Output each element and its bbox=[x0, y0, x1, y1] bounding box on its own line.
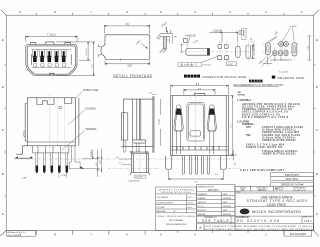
svg-text:DATE: DATE bbox=[223, 193, 228, 196]
zone numbers top bbox=[19, 10, 303, 14]
svg-text:B: B bbox=[2, 172, 4, 176]
dim 3.1 right pins bbox=[228, 150, 237, 161]
contact slots below bbox=[32, 50, 72, 68]
svg-text:16/08/30: 16/08/30 bbox=[223, 198, 232, 200]
small oval a bbox=[273, 50, 277, 56]
svg-text:WITHIN DIMENSIONS: WITHIN DIMENSIONS bbox=[166, 224, 187, 226]
svg-text:TML:: TML: bbox=[246, 135, 252, 137]
rear view outline bbox=[123, 99, 153, 146]
dim 1.3±0.05 mount bbox=[210, 32, 238, 43]
svg-text:CONTACT AREA:GOLD FLASH: CONTACT AREA:GOLD FLASH bbox=[262, 126, 303, 129]
bottom center notch bbox=[50, 73, 54, 75]
vertical dim left of reverse bbox=[253, 41, 255, 56]
circle pad 1 bbox=[279, 42, 284, 47]
shield latch window bbox=[37, 98, 54, 105]
zone ticks left bbox=[4, 65, 6, 196]
svg-text:(0.05μm MIN) OVERALL: (0.05μm MIN) OVERALL bbox=[262, 136, 297, 139]
svg-text:1.4±0.05: 1.4±0.05 bbox=[279, 71, 288, 73]
svg-text:SHIELD CASE: MATTE TIN: SHIELD CASE: MATTE TIN bbox=[246, 146, 282, 149]
svg-text:PROJECTION: PROJECTION bbox=[293, 190, 306, 192]
center post bbox=[133, 99, 146, 143]
svg-text:UNDER PLATING:NICKEL: UNDER PLATING:NICKEL bbox=[262, 152, 297, 155]
svg-text:NOTES: NOTES bbox=[238, 95, 246, 97]
svg-text:ANGULAR: ANGULAR bbox=[157, 210, 167, 213]
svg-text:CONNECTOR MOUNT SIDE: CONNECTOR MOUNT SIDE bbox=[202, 75, 247, 79]
doc row bbox=[197, 216, 314, 224]
svg-text:TIN(1μm MIN)×3 OVERALL: TIN(1μm MIN)×3 OVERALL bbox=[262, 150, 299, 153]
long diagonal leaders bbox=[262, 37, 278, 67]
front lip step bbox=[25, 104, 27, 142]
svg-text:-LEAD FREE-: -LEAD FREE- bbox=[266, 203, 287, 207]
svg-text:1.4±0.05: 1.4±0.05 bbox=[284, 59, 293, 61]
tolerance table bbox=[156, 187, 197, 231]
svg-text:+ø0.3 M: +ø0.3 M bbox=[135, 177, 143, 179]
label reverse side bbox=[272, 76, 275, 79]
label connector mount side bbox=[184, 75, 200, 78]
contact 2 bbox=[41, 51, 43, 56]
vertical dim right near border bbox=[308, 36, 312, 60]
svg-text:SHELL:COPPER ALLOY(t=0.25): SHELL:COPPER ALLOY(t=0.25) bbox=[242, 111, 288, 114]
svg-text:MOLEX INCORPORATED: MOLEX INCORPORATED bbox=[252, 210, 301, 214]
svg-text:1.0±0.1: 1.0±0.1 bbox=[91, 149, 93, 157]
scale row bbox=[235, 186, 251, 191]
svg-text:NB: NB bbox=[238, 92, 242, 94]
title label row bbox=[235, 192, 314, 194]
svg-text:TERMINAL:COPPER ALLOY(t=0.12): TERMINAL:COPPER ALLOY(t=0.12) bbox=[242, 108, 292, 111]
svg-text:500075-R5T: 500075-R5T bbox=[285, 173, 300, 177]
svg-text:Rev. E 2004/1/5: Rev. E 2004/1/5 bbox=[8, 235, 21, 237]
svg-text:±3°: ±3° bbox=[173, 211, 176, 213]
contacts row (5 black terminals) bbox=[33, 51, 65, 62]
side view body bbox=[27, 98, 75, 146]
centerlines mount pattern bbox=[183, 41, 253, 63]
contact 5 bbox=[63, 51, 65, 56]
top tab left bbox=[30, 43, 35, 45]
svg-text:TRAY PKG.: TRAY PKG. bbox=[285, 177, 299, 181]
revision box bottom-left bbox=[7, 231, 36, 237]
svg-text:0.45±0.05: 0.45±0.05 bbox=[185, 34, 196, 37]
svg-text:A: A bbox=[2, 212, 4, 216]
housing posts under body bbox=[33, 146, 69, 153]
svg-text:E: E bbox=[2, 38, 4, 42]
dim 7.0 bottom of back view bbox=[169, 171, 224, 181]
svg-text:BOSS:SUS CORE(t=0.25): BOSS:SUS CORE(t=0.25) bbox=[242, 113, 280, 116]
hidden cavity lines bbox=[58, 99, 65, 146]
shield slot pad left bbox=[186, 48, 210, 55]
svg-text:SOLDER TAIL:GOLD FLASH: SOLDER TAIL:GOLD FLASH bbox=[262, 134, 300, 137]
side view legs bbox=[36, 153, 68, 167]
svg-text:2-ø0.9: 2-ø0.9 bbox=[290, 26, 297, 28]
svg-text:ORDER NO./V-P-##: ORDER NO./V-P-## bbox=[281, 184, 304, 187]
dimple bbox=[59, 106, 62, 109]
svg-text:HOUSING:PBT RESIN UL94V-0 (BLA: HOUSING:PBT RESIN UL94V-0 (BLACK) bbox=[242, 103, 300, 106]
svg-text:(GLASS FILLED, YANEX RESIN B4#: (GLASS FILLED, YANEX RESIN B4#) bbox=[242, 106, 294, 109]
corner cut bottom-left bbox=[0, 231, 6, 237]
back view centerline bbox=[195, 91, 197, 159]
svg-text:A: A bbox=[316, 212, 318, 216]
svg-text:CNT:: CNT: bbox=[246, 127, 251, 129]
corner detail hatch bbox=[163, 37, 166, 49]
svg-text:3rd B-3 DOBEKPYY ALL TCP4.8: 3rd B-3 DOBEKPYY ALL TCP4.8 bbox=[242, 116, 289, 119]
solder fillets front foot bbox=[15, 156, 33, 158]
contact 1 bbox=[34, 51, 36, 56]
svg-text:HOUSING: HOUSING bbox=[85, 108, 96, 110]
svg-text:1.3±0.05: 1.3±0.05 bbox=[213, 29, 223, 32]
title block texts bbox=[281, 173, 304, 187]
dates column bbox=[197, 185, 235, 223]
svg-text:UNLESS SPECIFIED: UNLESS SPECIFIED bbox=[161, 192, 191, 194]
svg-text:B: B bbox=[316, 172, 318, 176]
pcb plane dash-dot lower bbox=[108, 168, 240, 170]
back view pins bbox=[182, 156, 209, 175]
svg-text:(7.5): (7.5) bbox=[308, 46, 310, 51]
svg-text:16/08/30: 16/08/30 bbox=[223, 214, 232, 216]
third angle projection symbol bbox=[275, 187, 283, 190]
svg-text:TERMINAL: TERMINAL bbox=[85, 128, 97, 131]
leader to pads bbox=[202, 56, 220, 63]
zone letters right bbox=[316, 38, 319, 216]
top tab center bbox=[46, 42, 54, 45]
svg-text:1. MATERIAL: 1. MATERIAL bbox=[237, 99, 252, 102]
datum flag D bbox=[239, 30, 244, 34]
svg-text:±0.25: ±0.25 bbox=[187, 203, 193, 205]
svg-text:0.7±0.05: 0.7±0.05 bbox=[202, 65, 211, 67]
top center tab bbox=[194, 93, 205, 95]
svg-text:PHASE I: PHASE I bbox=[198, 197, 207, 200]
svg-text:DATE: DATE bbox=[223, 209, 228, 212]
svg-text:5.87: 5.87 bbox=[128, 65, 133, 68]
back view body bbox=[171, 96, 229, 156]
zone ticks top bbox=[36, 13, 284, 15]
dim 5.87 bottom of frontage bbox=[98, 44, 150, 65]
oblong pad right 2 bbox=[246, 45, 251, 59]
svg-text:10/1: 10/1 bbox=[241, 190, 246, 192]
svg-text:+ ø0.10 M C A8: + ø0.10 M C A8 bbox=[179, 64, 194, 67]
dim 4.5 bbox=[184, 89, 215, 95]
small oval b bbox=[279, 50, 283, 56]
datum box C bbox=[184, 38, 188, 42]
zone letters left bbox=[2, 38, 5, 216]
section hatch bbox=[131, 154, 148, 170]
bottom bands bbox=[171, 147, 229, 151]
svg-text:UNDER PLATING:NICKEL: UNDER PLATING:NICKEL bbox=[262, 139, 297, 142]
svg-text:SHEET NO.: SHEET NO. bbox=[303, 216, 313, 218]
svg-text:SEE TABLE: SEE TABLE bbox=[202, 219, 230, 223]
dims right side of front view bbox=[56, 42, 95, 76]
gdt box below section bbox=[134, 175, 145, 178]
svg-text:DRAFT WHERE APPLICABLE: DRAFT WHERE APPLICABLE bbox=[157, 215, 196, 218]
frontage profile bbox=[101, 35, 150, 60]
order/pkg boxes bbox=[271, 172, 314, 176]
dim 5.4 top of back view bbox=[171, 85, 229, 95]
svg-text:(0.08μm MIN) OVERALL: (0.08μm MIN) OVERALL bbox=[262, 129, 297, 132]
oblong pad right bbox=[292, 43, 297, 56]
svg-text:EN-02(A029: EN-02(A029 bbox=[290, 232, 306, 236]
svg-text:MATERIAL NO.: MATERIAL NO. bbox=[205, 216, 218, 219]
svg-text:1.75±.1: 1.75±.1 bbox=[86, 48, 88, 56]
centerlines reverse bbox=[262, 39, 300, 60]
svg-text:REVERSE SIDE: REVERSE SIDE bbox=[278, 76, 305, 80]
svg-text:3-ELY AND RoHS COMPLIANT: 3-ELY AND RoHS COMPLIANT bbox=[240, 169, 285, 172]
cavity line bbox=[32, 54, 72, 65]
svg-text:DETAIL FRONTAGE: DETAIL FRONTAGE bbox=[113, 74, 152, 78]
corner cut bottom-right bbox=[314, 231, 320, 237]
svg-text:2-ø0.9±0.05: 2-ø0.9±0.05 bbox=[128, 180, 140, 182]
top tab right bbox=[65, 43, 71, 45]
svg-text:DRAWN BY: DRAWN BY bbox=[198, 193, 208, 196]
molex logo bbox=[240, 209, 302, 215]
svg-text:SHIELD CASE: SHIELD CASE bbox=[83, 89, 99, 92]
svg-text:KERITA: KERITA bbox=[198, 213, 206, 216]
svg-text:(4.05): (4.05) bbox=[159, 119, 161, 125]
shield legs back view bbox=[166, 156, 227, 170]
small window bbox=[65, 98, 72, 104]
svg-text:0.8P˝: 0.8P˝ bbox=[22, 177, 27, 180]
svg-text:THIS DRAWING CONTAINS INFORMAT: THIS DRAWING CONTAINS INFORMATION THAT I… bbox=[205, 225, 314, 228]
svg-text:16/08/30: 16/08/30 bbox=[223, 206, 232, 208]
svg-text:2. PLATING: 2. PLATING bbox=[237, 121, 250, 124]
pad row small bottom-right bbox=[224, 56, 228, 60]
svg-text:DATE: DATE bbox=[223, 201, 228, 204]
corner detail shape bbox=[161, 34, 173, 49]
pad row small top-left bbox=[218, 44, 222, 48]
pad row small bottom-left bbox=[217, 56, 221, 60]
svg-text:(1) OVER (3) UNDER: (1) OVER (3) UNDER bbox=[157, 203, 174, 205]
svg-text:MM ONLY: MM ONLY bbox=[208, 189, 219, 192]
contact housings bbox=[33, 50, 66, 57]
dim 4.9 top of frontage bbox=[104, 25, 149, 34]
oblong pad right bbox=[236, 46, 241, 57]
boardlock blade bbox=[121, 113, 128, 141]
svg-text:CHK'D BY: CHK'D BY bbox=[198, 202, 207, 204]
dim 5.7 right of back view bbox=[230, 96, 234, 156]
zone ticks bottom bbox=[36, 231, 284, 235]
svg-text:ø0.1 M: ø0.1 M bbox=[243, 30, 245, 37]
dim 7.7±0.1 top of front view bbox=[26, 36, 77, 42]
corner cut top-left bbox=[1, 10, 6, 16]
gdt frame mount bbox=[178, 63, 202, 67]
right latch wing bbox=[207, 105, 216, 154]
svg-text:D: D bbox=[240, 32, 242, 35]
pcb plane dash-dot upper bbox=[14, 158, 234, 160]
rear shield leg bbox=[70, 146, 81, 169]
svg-text:TERMINAL:: TERMINAL: bbox=[242, 123, 255, 126]
zone numbers bottom bbox=[19, 232, 267, 236]
svg-text:GENERAL TOLERANCES: GENERAL TOLERANCES bbox=[158, 188, 195, 191]
bottom left foot bbox=[16, 146, 32, 158]
pad row small top-right bbox=[224, 44, 228, 48]
cavity shelf lines bbox=[32, 50, 72, 68]
side view centerline bbox=[49, 94, 51, 156]
vertical gdt box left of reverse bbox=[242, 28, 246, 39]
EN box bbox=[284, 231, 312, 237]
dim right of legs bbox=[82, 150, 100, 177]
svg-text:METRIC: METRIC bbox=[258, 190, 267, 192]
left latch wing bbox=[174, 105, 183, 154]
small ticks left of bump bbox=[98, 44, 102, 57]
svg-text:APPR'D BY: APPR'D BY bbox=[198, 209, 208, 212]
title area outline bbox=[235, 186, 314, 230]
contact 4 bbox=[56, 51, 58, 56]
board edge line bbox=[153, 96, 154, 153]
leg solder tips bbox=[36, 166, 69, 174]
label kanji bold bbox=[249, 80, 263, 82]
svg-text:7.7±0.1: 7.7±0.1 bbox=[47, 32, 56, 36]
corner cut top-right bbox=[314, 10, 320, 15]
svg-text:E: E bbox=[316, 38, 318, 42]
front view outer shell bbox=[26, 45, 77, 76]
front view inner shell bbox=[27, 46, 75, 74]
svg-text:(3) OVER: (3) OVER bbox=[157, 207, 166, 209]
dim 1.4±0.05 a bbox=[270, 57, 286, 61]
tolerance table texts bbox=[158, 188, 195, 194]
svg-text:RECOMMENDED P.C.B. PATTERN LAY: RECOMMENDED P.C.B. PATTERN LAYOUT bbox=[234, 84, 285, 87]
small oval c bbox=[284, 50, 288, 56]
center tongue bbox=[187, 103, 205, 142]
svg-text:INCORPORATED AND SHOULD NOT BE: INCORPORATED AND SHOULD NOT BE USED WITH… bbox=[205, 228, 313, 231]
svg-text:1 OF 1: 1 OF 1 bbox=[304, 219, 312, 223]
circle pad 2 bbox=[284, 42, 289, 47]
logo row bbox=[235, 205, 314, 207]
section square bbox=[131, 153, 148, 172]
vertical dim right of pattern bbox=[251, 45, 255, 59]
svg-text:DOCUMENT NO.: DOCUMENT NO. bbox=[236, 217, 251, 219]
section centerline bbox=[139, 150, 141, 178]
svg-text:MUST REMAIN: MUST REMAIN bbox=[169, 219, 184, 222]
0.8 pitch box bbox=[227, 62, 237, 66]
oblong pad left bbox=[265, 43, 270, 55]
svg-text:ITO.O: ITO.O bbox=[198, 206, 204, 208]
svg-text:3 (1) UNDER: 3 (1) UNDER bbox=[157, 197, 169, 199]
dim 1.4±0.05 b bbox=[263, 57, 272, 65]
zone ticks right bbox=[314, 65, 316, 196]
svg-text:A3 Frame ref 1 of 1.5: A3 Frame ref 1 of 1.5 bbox=[8, 231, 26, 234]
contact 3 bbox=[48, 51, 50, 56]
svg-text:molex: molex bbox=[241, 210, 250, 214]
leader 2-R0.7 bbox=[141, 44, 148, 49]
disclaimer strip bbox=[197, 224, 314, 231]
svg-text:0.8 P.: 0.8 P. bbox=[227, 64, 233, 66]
